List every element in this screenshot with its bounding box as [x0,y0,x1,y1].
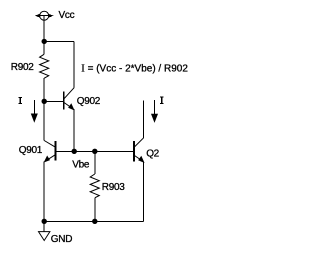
node Vbe junction dot [72,149,76,153]
wire R903 to ground rail [94,198,96,222]
wire Q902 collector feed [73,41,75,87]
wire ground rail [44,220,143,222]
current arrow I (right) [152,100,158,122]
ground [39,221,50,240]
label I (left current) [18,97,22,104]
wire Vcc to node A [43,16,45,42]
svg-text:Q902: Q902 [77,96,101,107]
ground rail left junction dot [42,219,46,223]
ground rail R903 junction dot [93,219,97,223]
current arrow I (left) [32,100,38,121]
Vcc power symbol [36,11,52,20]
wire middle horizontal (Q901 base to Q2 base) [55,150,133,152]
wire node A to R902 [43,41,45,54]
node A junction dot [42,39,46,43]
resistor R903 [90,174,99,198]
node B junction dot [42,99,46,103]
transistor Q902 [64,88,74,110]
svg-text:Q2: Q2 [146,148,159,159]
svg-text:GND: GND [51,234,72,245]
wire node to R903 [94,151,96,174]
wire R902 to node B to Q901 collector [43,78,45,140]
wire node B to Q902 base [44,100,63,102]
wire top horizontal [44,40,74,42]
transistor Q2 [134,138,144,162]
wire Q2 emitter to ground rail [143,162,145,222]
svg-text:Vcc: Vcc [59,10,75,21]
svg-text:Q901: Q901 [19,145,43,156]
svg-text:Vbe: Vbe [72,160,90,171]
resistor R902 [40,54,49,78]
svg-text:I = (Vcc - 2*Vbe) / R902: I = (Vcc - 2*Vbe) / R902 [81,64,188,75]
wire Q901 emitter to ground rail [43,161,45,221]
node R903 top junction dot [93,149,97,153]
svg-text:R902: R902 [11,62,34,73]
wire Q902 emitter to node Vbe [73,109,75,151]
transistor Q901 (mirrored) [44,141,55,162]
wire Q2 collector (free end with current I) [143,101,145,138]
label I (right current) [160,97,164,104]
svg-text:R903: R903 [102,182,125,193]
